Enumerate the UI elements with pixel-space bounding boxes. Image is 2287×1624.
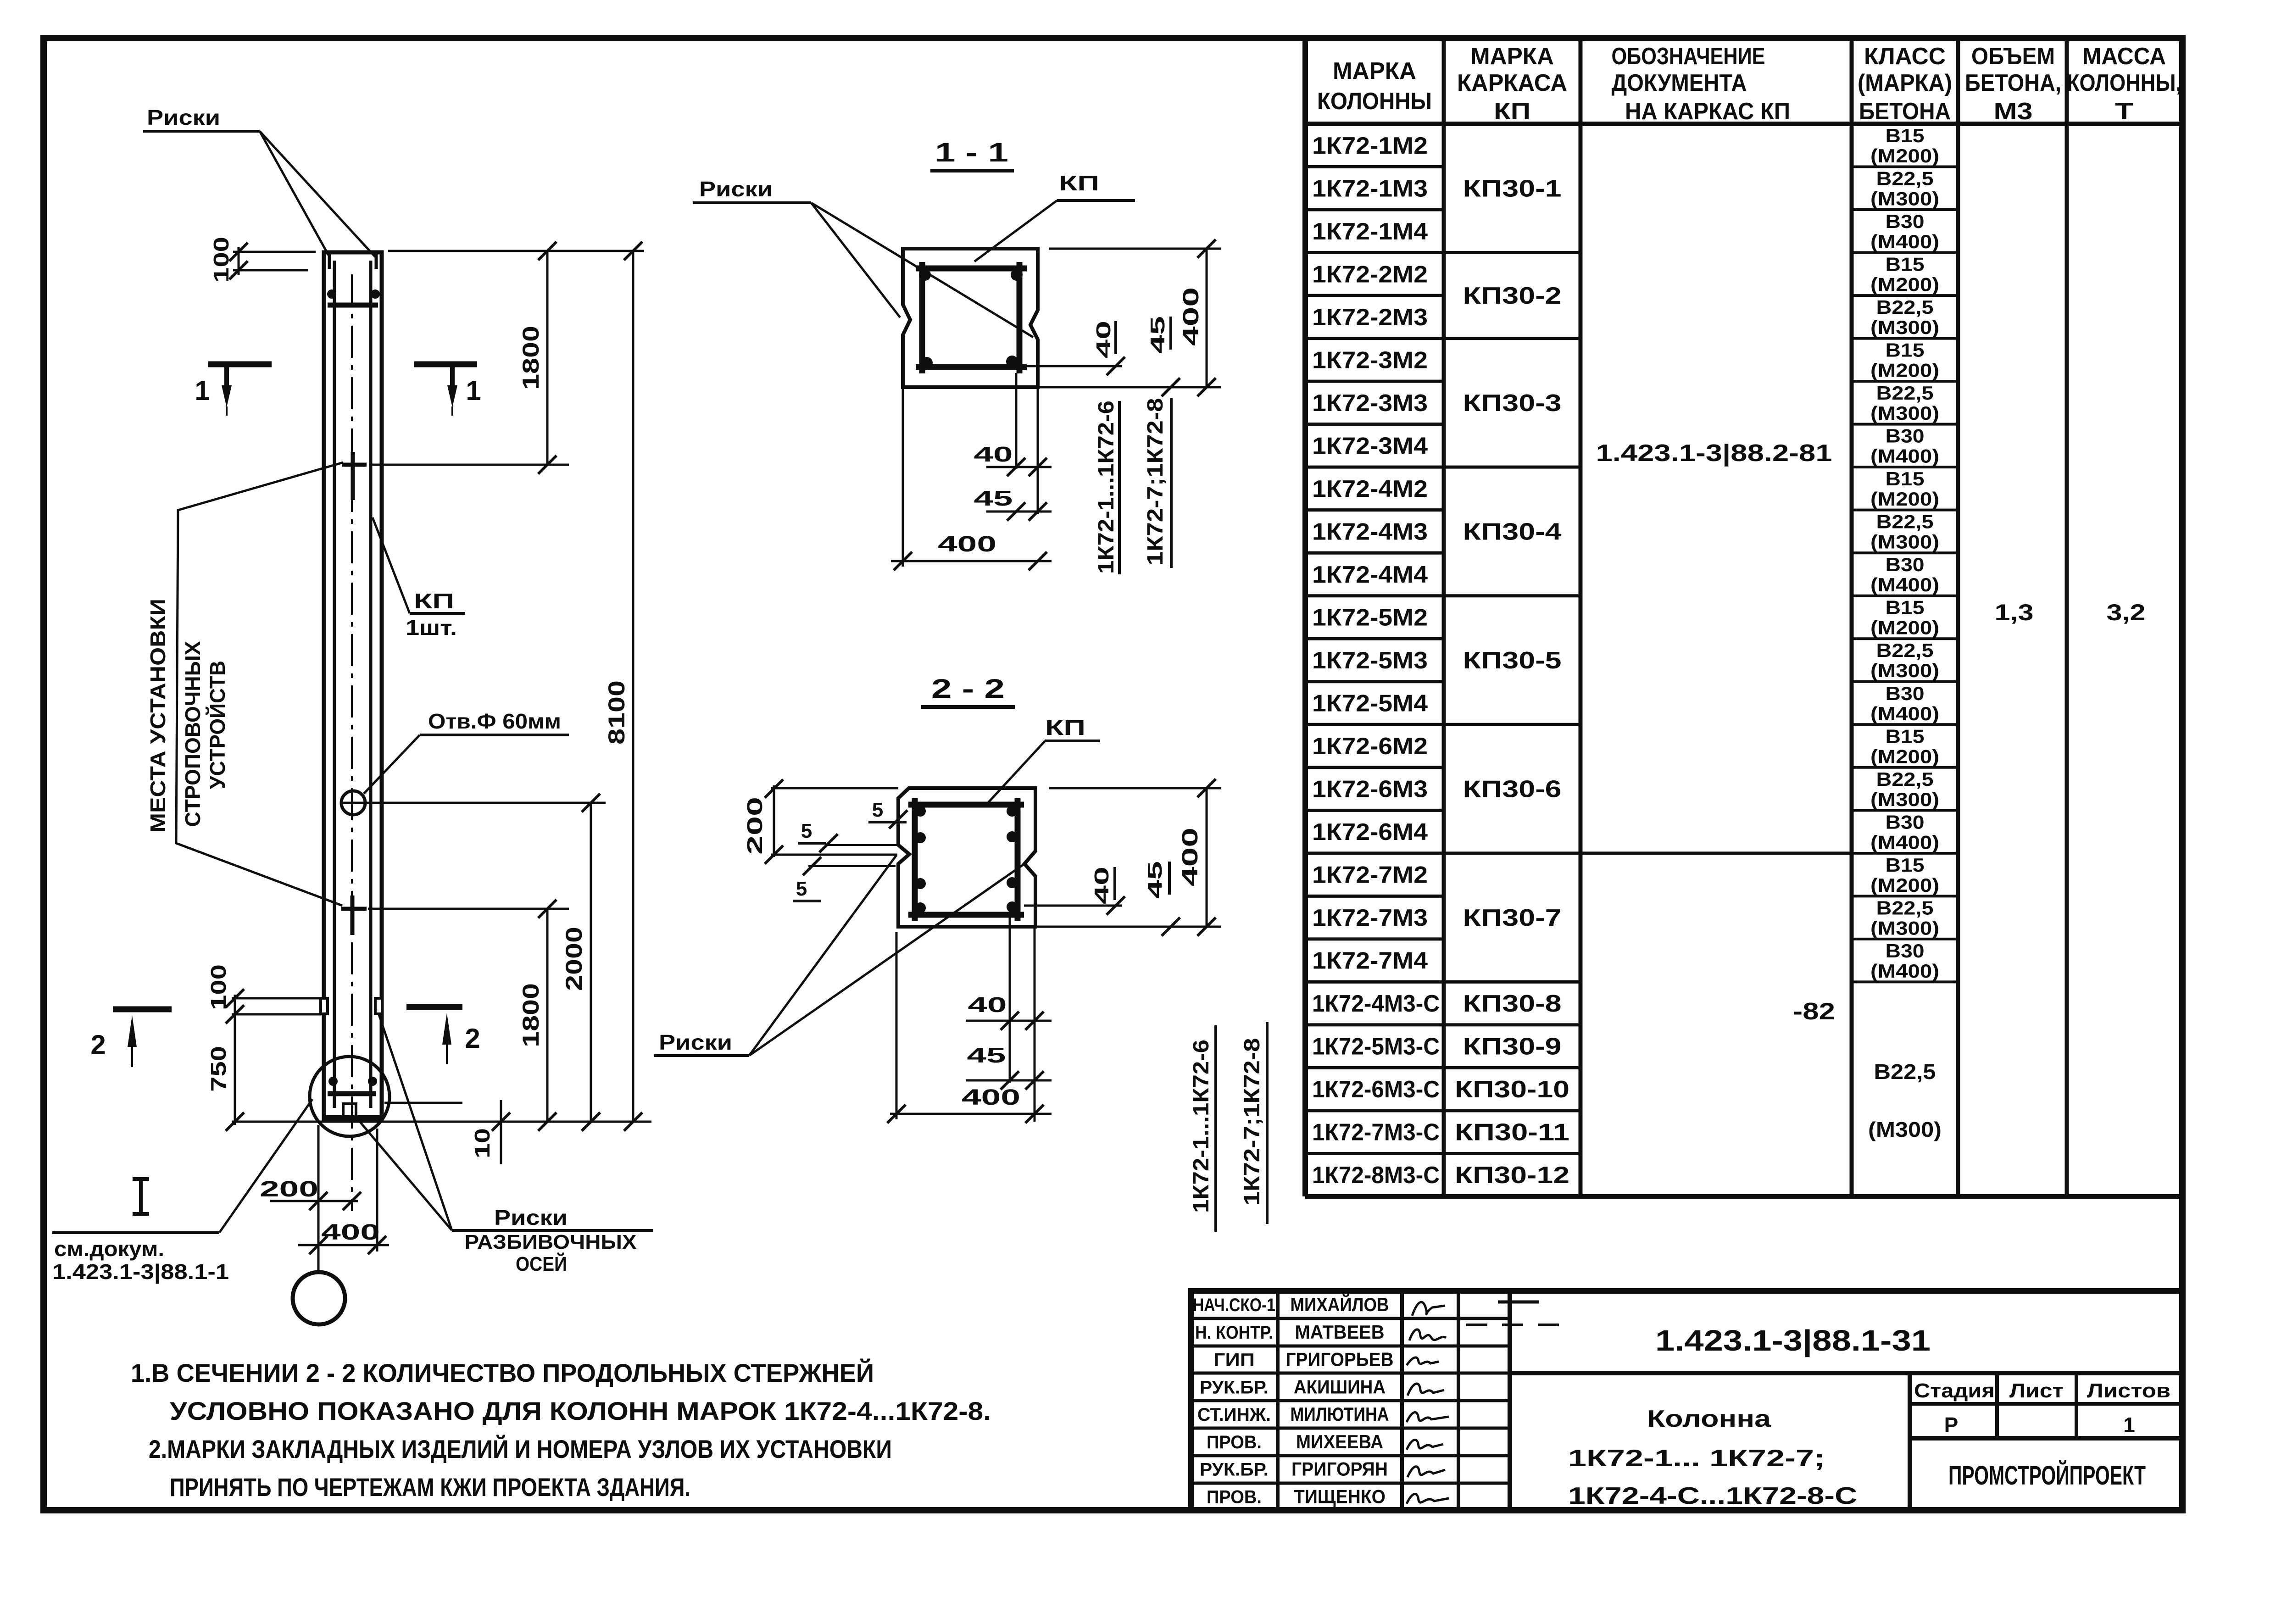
axis circle (293, 1272, 345, 1324)
leader bracket to strop crosses (176, 462, 343, 906)
column 1 row lines and marks (1305, 165, 1444, 168)
svg-text:1К72-8М3-С: 1К72-8М3-С (1312, 1162, 1440, 1189)
svg-text:2: 2 (465, 1023, 480, 1054)
svg-text:КП30-6: КП30-6 (1463, 776, 1562, 803)
svg-text:КП: КП (1059, 171, 1099, 195)
svg-text:5: 5 (801, 820, 812, 842)
svg-text:МАРКА: МАРКА (1470, 43, 1554, 70)
svg-text:1.423.1-3|88.1-1: 1.423.1-3|88.1-1 (52, 1260, 229, 1284)
svg-text:10: 10 (470, 1128, 494, 1158)
dimension 10 (384, 1102, 462, 1104)
svg-text:1К72-1М4: 1К72-1М4 (1312, 218, 1428, 245)
svg-text:1,3: 1,3 (1995, 600, 2034, 625)
svg-text:ТИЩЕНКО: ТИЩЕНКО (1294, 1485, 1386, 1507)
svg-text:Стадия: Стадия (1914, 1379, 1995, 1402)
svg-text:1К72-6М3: 1К72-6М3 (1312, 776, 1428, 803)
svg-text:МЕСТА УСТАНОВКИ: МЕСТА УСТАНОВКИ (146, 599, 170, 833)
svg-text:ОБОЗНАЧЕНИЕ: ОБОЗНАЧЕНИЕ (1612, 43, 1765, 70)
top corner risk tick right (375, 253, 378, 269)
svg-text:(М400): (М400) (1870, 445, 1939, 467)
svg-text:100: 100 (209, 237, 233, 283)
svg-text:1К72-1...1К72-6: 1К72-1...1К72-6 (1189, 1040, 1213, 1213)
svg-text:1К72-1М3: 1К72-1М3 (1312, 175, 1428, 202)
dimension 400 (column width) (298, 1244, 389, 1246)
svg-text:М3: М3 (1994, 98, 2033, 125)
svg-text:(М300): (М300) (1870, 660, 1939, 681)
svg-text:ГРИГОРЬЕВ: ГРИГОРЬЕВ (1286, 1349, 1394, 1370)
svg-text:В15: В15 (1886, 254, 1925, 275)
section mark 2 right (406, 1004, 462, 1010)
svg-text:Риски: Риски (147, 106, 220, 129)
signature rows (1191, 1317, 1510, 1320)
extension line top 2-2 (771, 787, 898, 790)
leader of sm.dokum to strop circle (219, 1099, 312, 1233)
svg-text:(М300): (М300) (1868, 1118, 1942, 1141)
svg-text:КП30-1: КП30-1 (1463, 175, 1562, 202)
side risk notch right (375, 998, 382, 1014)
side risk notch left (321, 998, 328, 1014)
svg-text:45: 45 (1146, 316, 1169, 354)
title block outer box (1191, 1291, 2182, 1510)
svg-text:(М200): (М200) (1870, 745, 1939, 767)
svg-text:МИЛЮТИНА: МИЛЮТИНА (1291, 1403, 1389, 1425)
svg-text:БЕТОНА,: БЕТОНА, (1965, 70, 2061, 96)
svg-text:(МАРКА): (МАРКА) (1858, 70, 1952, 96)
svg-text:(М400): (М400) (1870, 703, 1939, 724)
svg-text:КП30-12: КП30-12 (1455, 1162, 1569, 1189)
svg-text:В22,5: В22,5 (1876, 768, 1934, 790)
svg-text:1К72-3М2: 1К72-3М2 (1312, 347, 1428, 373)
svg-text:2: 2 (90, 1029, 106, 1060)
axis extension line (317, 1125, 320, 1272)
svg-text:1К72-3М3: 1К72-3М3 (1312, 390, 1428, 417)
svg-text:В15: В15 (1886, 597, 1925, 618)
svg-text:1К72-7М4: 1К72-7М4 (1312, 948, 1428, 974)
svg-text:1шт.: 1шт. (406, 616, 457, 640)
svg-text:750: 750 (206, 1046, 230, 1092)
svg-text:Колонна: Колонна (1647, 1406, 1771, 1432)
svg-text:1: 1 (466, 375, 481, 406)
svg-text:КП30-7: КП30-7 (1463, 905, 1562, 931)
svg-text:МИХАЙЛОВ: МИХАЙЛОВ (1291, 1293, 1389, 1315)
svg-text:1К72-1М2: 1К72-1М2 (1312, 133, 1428, 159)
top bar end dot right (371, 289, 380, 299)
column 3 divider and document designation (1580, 851, 1852, 855)
strop place cross upper (342, 463, 367, 467)
svg-text:КЛАСС: КЛАСС (1864, 43, 1946, 70)
svg-text:100: 100 (206, 964, 230, 1010)
svg-text:Р: Р (1944, 1413, 1959, 1437)
svg-text:ПРОВ.: ПРОВ. (1207, 1432, 1262, 1452)
svg-text:1800: 1800 (518, 326, 544, 390)
svg-text:В15: В15 (1886, 854, 1925, 876)
leader to right notch (379, 1015, 452, 1230)
svg-text:1К72-3М4: 1К72-3М4 (1312, 433, 1428, 459)
svg-text:КП: КП (1494, 98, 1530, 125)
lower dims 1-1: 40 45 400 (1015, 373, 1018, 469)
svg-text:(М200): (М200) (1870, 145, 1939, 167)
bottom centre risk mark (343, 1104, 356, 1116)
svg-text:МАССА: МАССА (2082, 43, 2166, 70)
svg-text:(М300): (М300) (1870, 531, 1939, 553)
section mark 1 right (414, 362, 477, 367)
svg-text:В22,5: В22,5 (1874, 1060, 1936, 1084)
svg-text:200: 200 (260, 1177, 318, 1201)
svg-text:КП30-9: КП30-9 (1463, 1034, 1562, 1060)
svg-text:В15: В15 (1886, 725, 1925, 747)
extension from bottom rebar 1-1 (1027, 365, 1122, 367)
svg-text:1: 1 (2123, 1413, 2135, 1437)
svg-text:КП: КП (414, 589, 454, 613)
svg-text:1К72-6М4: 1К72-6М4 (1312, 819, 1428, 845)
rebar corner dots 1-1 (919, 269, 931, 281)
svg-text:1К72-4-С...1К72-8-С: 1К72-4-С...1К72-8-С (1568, 1483, 1857, 1509)
extension line at hole level (367, 802, 606, 804)
svg-text:1К72-1...1К72-6: 1К72-1...1К72-6 (1094, 400, 1118, 574)
svg-text:МАРКА: МАРКА (1333, 58, 1416, 84)
svg-text:2.МАРКИ ЗАКЛАДНЫХ ИЗДЕЛИЙ И НО: 2.МАРКИ ЗАКЛАДНЫХ ИЗДЕЛИЙ И НОМЕРА УЗЛОВ… (149, 1435, 892, 1463)
svg-text:400: 400 (938, 532, 996, 556)
svg-text:В22,5: В22,5 (1876, 382, 1934, 404)
title block vertical dividers (1276, 1291, 1280, 1510)
svg-text:1800: 1800 (518, 983, 544, 1047)
bottom extension line (232, 1121, 651, 1123)
dimension 400 right of 2-2 (1206, 788, 1208, 927)
svg-text:1К72-2М2: 1К72-2М2 (1312, 261, 1428, 288)
strop place cross lower (341, 907, 367, 911)
svg-text:КП30-5: КП30-5 (1463, 647, 1562, 674)
svg-text:БЕТОНА: БЕТОНА (1859, 98, 1951, 125)
extension line at upper strop cross (369, 464, 569, 466)
leader to left notch 2-2 (749, 855, 896, 1056)
leader of KP to rebar (373, 517, 410, 613)
svg-text:-82: -82 (1793, 998, 1835, 1025)
svg-text:(М300): (М300) (1870, 789, 1939, 810)
section 1-1 rebar square (916, 266, 1027, 272)
leader to right notch 2-2 (749, 865, 1023, 1056)
right edge extension down (376, 1129, 378, 1251)
svg-text:КП30-10: КП30-10 (1455, 1076, 1569, 1103)
leader to left corner mark (260, 131, 328, 255)
top corner risk tick left (328, 253, 331, 269)
svg-text:ОБЪЕМ: ОБЪЕМ (1971, 43, 2055, 70)
svg-text:ПРОВ.: ПРОВ. (1207, 1487, 1262, 1507)
underline of Otv label (420, 734, 569, 736)
svg-text:Риски: Риски (659, 1030, 732, 1054)
svg-text:1К72-4М3: 1К72-4М3 (1312, 518, 1428, 545)
svg-text:45: 45 (974, 486, 1013, 510)
svg-text:5: 5 (796, 878, 807, 900)
dimension 200 (axis offset) (270, 1200, 358, 1202)
svg-text:400: 400 (962, 1085, 1020, 1110)
svg-text:1К72-6М3-С: 1К72-6М3-С (1312, 1076, 1440, 1103)
svg-text:400: 400 (1178, 828, 1202, 886)
leader KP 2-2 (985, 741, 1045, 806)
svg-text:1.В СЕЧЕНИИ 2 - 2 КОЛИЧЕСТВО: 1.В СЕЧЕНИИ 2 - 2 КОЛИЧЕСТВО ПРОДОЛЬНЫХ … (131, 1358, 874, 1387)
svg-text:В30: В30 (1886, 683, 1925, 704)
svg-text:1: 1 (195, 375, 210, 406)
svg-text:см.докум.: см.докум. (54, 1237, 164, 1261)
leader KP 1-1 (974, 200, 1057, 261)
svg-text:НА КАРКАС КП: НА КАРКАС КП (1625, 98, 1790, 125)
table outer and column lines (1302, 38, 1308, 1196)
svg-text:В22,5: В22,5 (1876, 296, 1934, 318)
svg-text:1К72-6М2: 1К72-6М2 (1312, 733, 1428, 760)
svg-text:1К72-7;1К72-8: 1К72-7;1К72-8 (1240, 1038, 1264, 1206)
svg-text:(М300): (М300) (1870, 917, 1939, 939)
svg-text:КП30-11: КП30-11 (1455, 1119, 1569, 1146)
svg-text:КП30-8: КП30-8 (1463, 990, 1562, 1017)
svg-text:1К72-4М3-С: 1К72-4М3-С (1312, 990, 1440, 1017)
top bar end dot left (327, 289, 336, 299)
svg-text:В22,5: В22,5 (1876, 511, 1934, 533)
svg-text:(М400): (М400) (1870, 231, 1939, 252)
svg-text:РАЗБИВОЧНЫХ: РАЗБИВОЧНЫХ (465, 1231, 637, 1253)
strop device circle at column bottom (310, 1057, 390, 1136)
svg-text:ДОКУМЕНТА: ДОКУМЕНТА (1612, 70, 1747, 96)
svg-text:1К72-2М3: 1К72-2М3 (1312, 304, 1428, 331)
svg-text:Лист: Лист (2009, 1379, 2064, 1402)
column 4 row lines and concrete classes (1852, 166, 1958, 168)
dimension 200 left of 2-2 (773, 785, 775, 857)
svg-text:1.423.1-3|88.2-81: 1.423.1-3|88.2-81 (1596, 440, 1832, 467)
svg-text:КП: КП (1045, 716, 1085, 740)
svg-text:КОЛОННЫ,: КОЛОННЫ, (2067, 70, 2181, 96)
svg-text:В30: В30 (1886, 554, 1925, 575)
svg-text:1К72-5М3: 1К72-5М3 (1312, 647, 1428, 674)
leader of Otv label to hole (364, 735, 420, 794)
svg-text:В22,5: В22,5 (1876, 168, 1934, 189)
svg-text:ПРОМСТРОЙПРОЕКТ: ПРОМСТРОЙПРОЕКТ (1948, 1461, 2146, 1491)
svg-text:В22,5: В22,5 (1876, 897, 1934, 918)
extension line at lower strop cross (368, 908, 569, 910)
svg-text:1К72-7;1К72-8: 1К72-7;1К72-8 (1143, 398, 1168, 566)
column bottom edge thick (323, 1115, 383, 1122)
svg-text:200: 200 (743, 797, 767, 855)
rebar dots 2-2 right column (1007, 806, 1018, 817)
svg-text:РУК.БР.: РУК.БР. (1200, 1377, 1269, 1397)
svg-text:КОЛОННЫ: КОЛОННЫ (1317, 88, 1432, 115)
leader to right corner mark (260, 131, 375, 257)
svg-text:(М300): (М300) (1870, 317, 1939, 338)
svg-text:40: 40 (968, 993, 1007, 1017)
svg-text:1.423.1-3|88.1-31: 1.423.1-3|88.1-31 (1655, 1324, 1931, 1357)
svg-text:8100: 8100 (604, 680, 629, 745)
svg-text:45: 45 (1144, 861, 1166, 899)
dimension 8100 (632, 251, 634, 1122)
svg-text:1К72-4М2: 1К72-4М2 (1312, 476, 1428, 502)
dimension 1800 lower (546, 909, 549, 1122)
handwritten signatures (1412, 1302, 1445, 1316)
axis I symbol (133, 1177, 149, 1181)
svg-text:(М200): (М200) (1870, 274, 1939, 295)
svg-text:(М200): (М200) (1870, 617, 1939, 639)
leader to left notch 1-1 (811, 203, 900, 317)
svg-text:1К72-5М2: 1К72-5М2 (1312, 604, 1428, 631)
dimension 100 and 750 (bottom left) (232, 997, 321, 1000)
svg-text:НАЧ.СКО-1: НАЧ.СКО-1 (1193, 1295, 1275, 1315)
underline (452, 1229, 653, 1232)
svg-text:Риски: Риски (699, 177, 773, 201)
svg-text:1К72-4М4: 1К72-4М4 (1312, 562, 1428, 588)
svg-text:МИХЕЕВА: МИХЕЕВА (1296, 1431, 1383, 1452)
underline of sm.dokum (52, 1231, 219, 1234)
svg-text:(М400): (М400) (1870, 960, 1939, 982)
section mark 1 left (208, 362, 272, 367)
svg-text:2000: 2000 (561, 927, 587, 991)
svg-text:ПРИНЯТЬ ПО ЧЕРТЕЖАМ КЖИ ПРОЕК: ПРИНЯТЬ ПО ЧЕРТЕЖАМ КЖИ ПРОЕКТА ЗДАНИЯ. (170, 1473, 690, 1502)
svg-text:(М200): (М200) (1870, 488, 1939, 510)
section 1-1 outline (903, 249, 1038, 387)
svg-text:1К72-7М3: 1К72-7М3 (1312, 905, 1428, 931)
svg-text:В30: В30 (1886, 211, 1925, 232)
svg-text:ГИП: ГИП (1213, 1350, 1255, 1370)
svg-text:45: 45 (967, 1043, 1006, 1067)
svg-text:УСТРОЙСТВ: УСТРОЙСТВ (206, 661, 229, 789)
svg-text:В30: В30 (1886, 425, 1925, 447)
column elevation outline (324, 252, 382, 1118)
svg-text:3,2: 3,2 (2107, 600, 2146, 625)
stadiya column divider (1908, 1373, 1912, 1510)
svg-text:1К72-5М3-С: 1К72-5М3-С (1312, 1034, 1440, 1060)
svg-text:В30: В30 (1886, 811, 1925, 833)
svg-text:(М400): (М400) (1870, 831, 1939, 853)
column centerline (dash-dot) (351, 274, 353, 1211)
dimension 2000 (590, 803, 592, 1122)
svg-text:40: 40 (1092, 321, 1115, 358)
longitudinal rebar left (333, 261, 336, 1108)
dash marks in date column (1498, 1301, 1539, 1304)
top transverse bar (328, 303, 378, 308)
svg-text:1К72-7М2: 1К72-7М2 (1312, 862, 1428, 889)
svg-text:КП30-2: КП30-2 (1463, 283, 1562, 309)
svg-text:(М200): (М200) (1870, 874, 1939, 896)
svg-text:В30: В30 (1886, 940, 1925, 962)
table header bottom line (1305, 122, 2182, 126)
dimension 400 right of 1-1 (1049, 248, 1221, 250)
svg-text:Отв.Ф 60мм: Отв.Ф 60мм (428, 709, 561, 733)
svg-text:ОСЕЙ: ОСЕЙ (516, 1252, 567, 1275)
svg-text:МАТВЕЕВ: МАТВЕЕВ (1295, 1321, 1385, 1343)
rebar dots 2-2 left column (915, 806, 926, 817)
svg-text:40: 40 (1091, 867, 1113, 904)
svg-text:1К72-5М4: 1К72-5М4 (1312, 690, 1428, 717)
dimension 1800 upper (546, 251, 549, 465)
svg-text:В15: В15 (1886, 339, 1925, 361)
section mark 2 left (113, 1007, 172, 1012)
svg-text:Риски: Риски (494, 1206, 568, 1229)
svg-text:40: 40 (974, 442, 1013, 466)
bottom transverse bar (328, 1091, 376, 1096)
svg-text:РУК.БР.: РУК.БР. (1200, 1460, 1269, 1480)
longitudinal rebar right (369, 261, 373, 1108)
lower dims 2-2: 40 45 400 (1009, 915, 1011, 1083)
svg-text:СТРОПОВОЧНЫХ: СТРОПОВОЧНЫХ (181, 641, 205, 827)
bottom bar end dot left (328, 1077, 338, 1086)
svg-text:КП30-4: КП30-4 (1463, 518, 1562, 545)
dimension 100 (top left) (233, 251, 316, 253)
bottom extension 1-1 (1038, 386, 1221, 389)
svg-text:СТ.ИНЖ.: СТ.ИНЖ. (1197, 1405, 1271, 1425)
bottom bar end dot right (368, 1077, 377, 1086)
section 2-2 outline (898, 788, 1035, 927)
svg-text:1 - 1: 1 - 1 (935, 138, 1008, 167)
table bottom line (1305, 1194, 2182, 1199)
doc number box divider (1510, 1371, 2182, 1375)
svg-text:(М300): (М300) (1870, 402, 1939, 424)
svg-text:400: 400 (321, 1220, 380, 1245)
svg-text:В15: В15 (1886, 468, 1925, 489)
bottom extension 2-2 (1035, 926, 1221, 928)
svg-text:5: 5 (872, 799, 883, 821)
svg-text:В22,5: В22,5 (1876, 640, 1934, 661)
leader across to right notch 1-1 (811, 203, 1033, 337)
leader to bottom mark (358, 1119, 452, 1230)
svg-text:2 - 2: 2 - 2 (931, 674, 1005, 704)
extension from bottom rebar 2-2 (1024, 905, 1122, 907)
extension line top (388, 250, 644, 252)
svg-text:ГРИГОРЯН: ГРИГОРЯН (1291, 1458, 1388, 1480)
svg-text:КАРКАСА: КАРКАСА (1457, 70, 1567, 96)
svg-text:1К72-7М3-С: 1К72-7М3-С (1312, 1119, 1440, 1146)
section 2-2 rebar square (908, 802, 1024, 808)
svg-text:В15: В15 (1886, 125, 1925, 146)
svg-text:1К72-1... 1К72-7;: 1К72-1... 1К72-7; (1568, 1445, 1825, 1472)
underline of KP (410, 612, 465, 615)
svg-text:Н. КОНТР.: Н. КОНТР. (1195, 1323, 1273, 1343)
svg-text:400: 400 (1179, 287, 1203, 346)
svg-text:Листов: Листов (2087, 1379, 2170, 1402)
underline of Riski top (143, 130, 260, 133)
svg-text:(М300): (М300) (1870, 188, 1939, 210)
svg-text:(М400): (М400) (1870, 574, 1939, 595)
svg-text:Т: Т (2115, 98, 2133, 125)
svg-text:КП30-3: КП30-3 (1463, 390, 1562, 417)
svg-text:УСЛОВНО ПОКАЗАНО ДЛЯ КОЛОНН М: УСЛОВНО ПОКАЗАНО ДЛЯ КОЛОНН МАРОК 1К72-4… (170, 1396, 991, 1425)
hole Otv.60mm circle (341, 791, 365, 815)
svg-text:АКИШИНА: АКИШИНА (1294, 1376, 1386, 1397)
svg-text:(М200): (М200) (1870, 360, 1939, 381)
